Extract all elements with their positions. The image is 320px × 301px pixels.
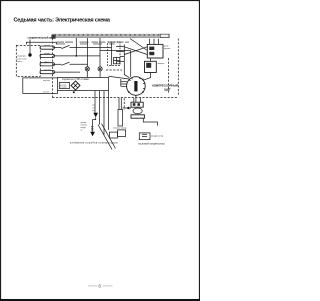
timer cam contact: [114, 58, 120, 64]
wire under L2: [99, 71, 101, 77]
svg-text:белый: белый: [43, 91, 49, 94]
svg-text:син: син: [92, 107, 95, 109]
svg-text:ЩИТ: ЩИТ: [164, 88, 171, 92]
svg-text:оттайки: оттайки: [60, 86, 67, 89]
wire row 2: [53, 55, 100, 57]
wire bundle drop H: [99, 91, 101, 125]
thermostat panel label: [17, 56, 27, 64]
wire drop C: [99, 38, 101, 67]
wire drop B: [87, 38, 89, 67]
footer rule left: [88, 285, 98, 287]
wire from cord label: [29, 40, 31, 55]
wire drop L: [120, 98, 122, 110]
wire tag marks: [91, 126, 93, 130]
svg-text:ха: ха: [81, 130, 84, 132]
svg-text:синий: синий: [44, 52, 49, 55]
wire drop A: [75, 38, 77, 56]
wire relay loop: [143, 118, 157, 125]
wire row 1 cont: [70, 47, 112, 49]
mains lead diagonal wires: [98, 125, 112, 150]
power cord label: [27, 35, 57, 57]
wire row 3 cont: [70, 63, 88, 65]
defrost thermostat box: [59, 83, 69, 89]
thermostat panel (dashed box): [16, 45, 40, 76]
wire drop M: [133, 98, 135, 103]
overload protector K2: [145, 61, 166, 72]
svg-text:света: света: [17, 61, 23, 63]
lamp L2: [98, 67, 102, 71]
wire row lamp2 to timer: [100, 50, 131, 52]
wire row 4: [53, 71, 80, 73]
junction boxes J1 J2: [104, 128, 128, 138]
wire drop F: [130, 51, 132, 77]
wire inside timer box: [111, 43, 113, 66]
page border frame: [0, 0, 200, 1]
cord bracket: [27, 42, 57, 44]
bridge rectifier D1 (diamond): [71, 81, 80, 90]
svg-text:жел: жел: [92, 110, 95, 112]
wire bundle drop J: [108, 91, 110, 130]
connector CN4: [40, 68, 55, 73]
terminal strip TB1 (gray connector bar): [52, 34, 170, 45]
svg-text:белый: белый: [44, 44, 50, 47]
connector CN1: [40, 44, 55, 49]
svg-text:КОМПРЕССОРНЫЙ: КОМПРЕССОРНЫЙ: [152, 84, 178, 88]
wire K1 to K2: [150, 58, 152, 61]
svg-text:пусковой конденсатор: пусковой конденсатор: [138, 142, 165, 146]
connector CN2: [40, 52, 55, 57]
wire drop N: [140, 98, 142, 103]
heater control board U1: [58, 77, 109, 90]
wire drop K: [118, 98, 120, 110]
timer contact rung 3: [120, 56, 124, 58]
wire K2 to timer: [143, 73, 150, 81]
svg-text:пусков.: пусков.: [164, 48, 171, 50]
wire bundle drop I: [103, 91, 105, 132]
node under board: [73, 91, 75, 93]
wire name labels under terminal strip: [57, 42, 129, 45]
timer contact rung 2: [116, 51, 124, 53]
svg-text:выключат.: выключат.: [17, 58, 27, 60]
svg-text:терморег.: терморег.: [17, 56, 27, 58]
timer coil stub wires: [121, 79, 127, 86]
wire bundle drop G: [94, 91, 96, 114]
cabinet boundary (dashed): [52, 38, 178, 110]
timer contact rung 4: [117, 61, 125, 63]
wire bar to relay b: [153, 39, 155, 45]
wire from U2 to timer: [109, 76, 130, 79]
wire row 1: [53, 47, 62, 49]
svg-text:клеммная коробка компрессора: клеммная коробка компрессора: [70, 141, 118, 145]
compressor board label: [152, 84, 178, 92]
svg-text:черный: черный: [43, 79, 50, 82]
svg-text:Седьмая часть: Электрическая с: Седьмая часть: Электрическая схема: [14, 17, 111, 23]
junction node: [28, 53, 31, 56]
node row2: [75, 55, 77, 57]
wire timer down: [135, 95, 137, 102]
wire under L1: [86, 71, 88, 77]
svg-text:6: 6: [98, 284, 101, 290]
defrost timer M1 (circle with bar): [127, 77, 146, 96]
timer contact rung 1: [116, 46, 124, 48]
wire color tags: [92, 105, 95, 113]
arrow to mains 1: [93, 113, 98, 118]
compressor motor C1 (oval): [133, 108, 142, 114]
wire row 3: [53, 63, 62, 65]
door heater loop wire: [23, 78, 58, 94]
capacitor C2: [139, 133, 164, 140]
terminal strip end cap: [51, 35, 55, 39]
defrost timer switch box (dashed): [108, 42, 121, 66]
compressor terminal cover Q1: [118, 102, 144, 126]
svg-text:черный: черный: [44, 68, 51, 71]
arrow to mains 2: [90, 132, 95, 137]
switch S1: [62, 45, 70, 48]
strip end connector: [160, 34, 169, 37]
wire bar to relay c: [158, 39, 160, 45]
footer rule right: [103, 285, 113, 287]
wire cont G: [93, 117, 96, 132]
switch S2: [62, 62, 70, 65]
wire bar to relay a: [149, 39, 151, 45]
mains label block: [81, 122, 88, 132]
svg-text:клеммы компр.: клеммы компр.: [113, 128, 128, 130]
crossing wire 3: [130, 39, 147, 51]
svg-text:конденсатор: конденсатор: [151, 136, 164, 138]
timer bus wire: [123, 45, 125, 73]
wire to timer motor: [124, 72, 129, 78]
connector CN3: [40, 62, 55, 66]
crossing wire 2: [124, 47, 147, 55]
crossing wire 1: [124, 47, 147, 55]
svg-text:кор: кор: [92, 105, 95, 107]
starting relay K1: [147, 44, 171, 58]
svg-text:защита: защита: [158, 63, 166, 65]
lamp L1: [85, 67, 89, 71]
